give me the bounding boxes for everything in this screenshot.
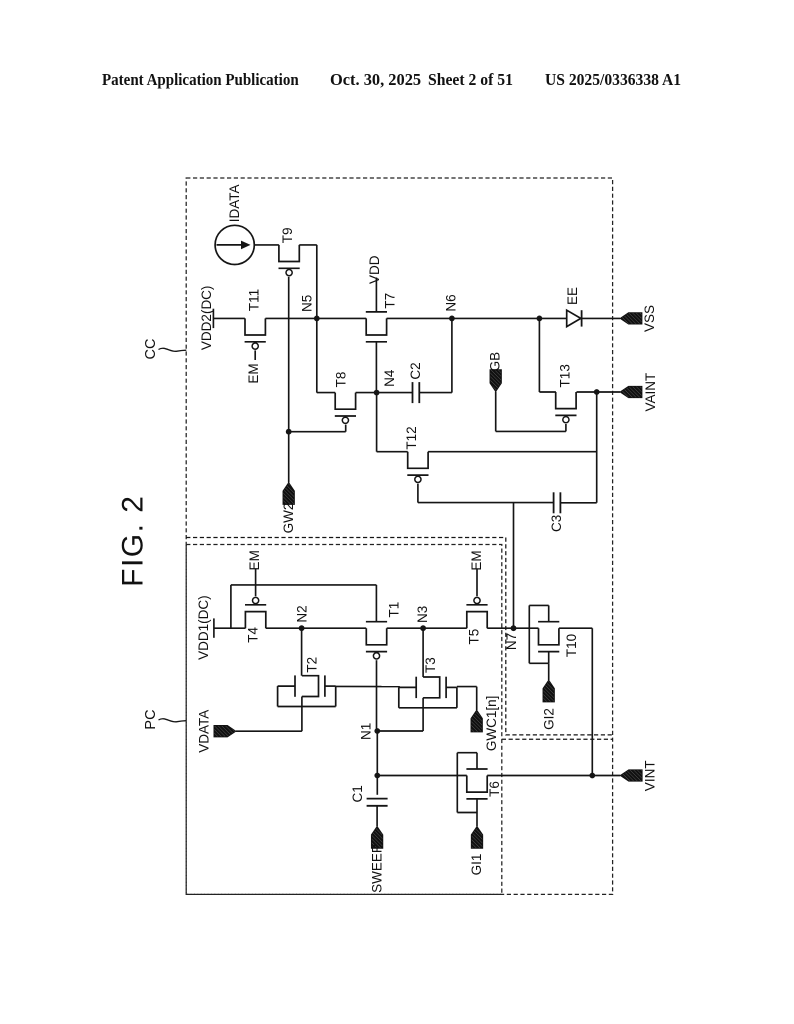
svg-text:GWC1[n]: GWC1[n] bbox=[484, 696, 499, 752]
wire T6 to VINT junction bbox=[487, 775, 592, 777]
CC leader line bbox=[159, 348, 187, 351]
wire T2 to VDATA wire bbox=[301, 697, 303, 732]
wire T3 down to N1 wire bbox=[422, 698, 424, 731]
wire N4 down to T12 row bbox=[376, 393, 378, 452]
terminal GWC1[n] bbox=[471, 710, 483, 732]
dashed segment below T10 pocket bbox=[502, 738, 613, 740]
svg-text:T3: T3 bbox=[423, 657, 438, 673]
terminal GW2 bbox=[283, 483, 295, 505]
terminal VINT bbox=[620, 770, 642, 782]
svg-text:T12: T12 bbox=[404, 426, 419, 449]
wire N3 to T5 bbox=[423, 627, 467, 629]
wire VAINT node down to C3 bbox=[596, 392, 598, 503]
svg-text:IDATA: IDATA bbox=[227, 184, 242, 222]
transistor T7 bbox=[366, 312, 387, 342]
wire T9 gate down to GW2 node bbox=[288, 277, 290, 432]
svg-text:N3: N3 bbox=[415, 606, 430, 623]
wire VDD2 to T11 bbox=[213, 317, 245, 319]
svg-text:GI2: GI2 bbox=[541, 708, 556, 730]
wire EE junction down to T13 bbox=[538, 318, 540, 392]
wire T12 to VAINT vertical bbox=[428, 451, 596, 453]
node N5 junction bbox=[314, 316, 320, 322]
wire GI1 to T6 gate loop bbox=[476, 813, 478, 827]
wire N1 to T3 bbox=[377, 730, 423, 732]
wire N1 row to T6 bbox=[377, 775, 467, 777]
page header text bbox=[102, 70, 299, 90]
transistor T8 bbox=[335, 393, 356, 424]
T10 gate loop wires bbox=[548, 605, 550, 621]
node N6 junction bbox=[449, 316, 455, 322]
wire N5 to T7 bbox=[317, 317, 366, 319]
svg-text:T11: T11 bbox=[247, 289, 262, 311]
svg-text:N4: N4 bbox=[382, 369, 397, 387]
svg-text:T6: T6 bbox=[487, 781, 502, 797]
wire to T8 bbox=[317, 392, 335, 394]
wire to VINT terminal bbox=[592, 775, 620, 777]
svg-text:C3: C3 bbox=[549, 515, 564, 532]
junction N1 row bbox=[374, 773, 380, 779]
wire N2 down to T2 bbox=[301, 628, 303, 676]
junction VAINT node bbox=[594, 389, 600, 395]
PC leader line bbox=[159, 719, 187, 722]
wire T5 gate up to EM bbox=[476, 569, 478, 596]
wire T1 gate down to N1 bbox=[376, 660, 378, 731]
CC block dashed border bbox=[186, 178, 612, 894]
wire N7 net down to N7 bbox=[513, 503, 515, 629]
transistor T4 bbox=[245, 597, 266, 628]
wire T7 bottom gate to N4 bbox=[375, 342, 377, 393]
transistor T5 bbox=[466, 597, 487, 628]
svg-text:N2: N2 bbox=[295, 605, 310, 622]
terminal GI1 bbox=[471, 826, 483, 848]
wire C2 to N6 branch bbox=[419, 392, 452, 394]
transistor T9 bbox=[279, 245, 300, 276]
node N2 junction bbox=[299, 625, 305, 631]
svg-text:SWEEP: SWEEP bbox=[369, 844, 384, 893]
capacitor C3 bbox=[554, 492, 561, 513]
wire T3 loop to GWC1 terminal bbox=[457, 686, 477, 688]
svg-text:T7: T7 bbox=[383, 293, 398, 309]
wire to C3 right plate bbox=[561, 502, 597, 504]
node N7 junction bbox=[511, 625, 517, 631]
terminal GB bbox=[490, 370, 502, 392]
wire T11 gate to EM bbox=[254, 350, 256, 360]
transistor T12 bbox=[407, 452, 428, 483]
svg-text:EM: EM bbox=[247, 550, 262, 570]
svg-text:T13: T13 bbox=[558, 364, 573, 387]
svg-text:N5: N5 bbox=[300, 295, 315, 312]
transistor T10 bbox=[538, 622, 559, 652]
wire N3 down to T3 bbox=[422, 628, 424, 677]
svg-text:VDD: VDD bbox=[367, 255, 382, 284]
svg-text:T10: T10 bbox=[564, 634, 579, 657]
wire VDD1 branch up bbox=[230, 585, 232, 628]
wire T10 down to VINT row bbox=[591, 628, 593, 775]
terminal VSS bbox=[620, 313, 642, 325]
terminal GI2 bbox=[543, 680, 555, 702]
wire N2 to T1 bbox=[302, 627, 367, 629]
wire T11 to N5 bbox=[265, 317, 316, 319]
wire GW2 node to GW2 terminal bbox=[288, 432, 290, 483]
transistor T3 bbox=[399, 677, 457, 708]
node N4 junction bbox=[374, 390, 380, 396]
wire IDATA to T9 bbox=[254, 244, 279, 246]
svg-text:C1: C1 bbox=[350, 785, 365, 802]
svg-text:VDATA: VDATA bbox=[197, 710, 212, 753]
wire VDD to T7 top gate bbox=[375, 278, 377, 312]
wire N4 to C2 bbox=[377, 392, 413, 394]
capacitor C1 bbox=[367, 799, 388, 806]
wire GWC1 net T2 loop to T3 loop bbox=[336, 685, 400, 687]
svg-text:VAINT: VAINT bbox=[643, 373, 658, 412]
terminal SWEEP bbox=[371, 826, 383, 848]
wire up to N6 bbox=[451, 318, 453, 392]
wire across to T1 top gate bbox=[231, 584, 377, 586]
wire T7 to N6 bbox=[387, 317, 452, 319]
terminal VAINT bbox=[620, 386, 642, 398]
wire N7 to T10 bbox=[514, 627, 539, 629]
wire T8 gate to GW2 node bbox=[289, 431, 346, 433]
svg-text:N1: N1 bbox=[359, 723, 374, 740]
capacitor C2 bbox=[413, 382, 420, 403]
wire VDD1 to T4 bbox=[214, 627, 246, 629]
svg-text:VINT: VINT bbox=[643, 760, 658, 791]
terminal tick VDD1(DC) bbox=[213, 618, 215, 637]
svg-text:PC: PC bbox=[143, 709, 159, 729]
svg-text:C2: C2 bbox=[408, 362, 423, 379]
wire down to T1 top gate bar bbox=[375, 585, 377, 622]
wire T4 gate up to EM bbox=[255, 569, 257, 596]
wire GB down bbox=[495, 392, 497, 432]
transistor T1 bbox=[366, 622, 387, 659]
wire N5 down to T8 row bbox=[316, 318, 318, 392]
svg-text:VDD2(DC): VDD2(DC) bbox=[199, 286, 214, 351]
wire VDATA bbox=[236, 730, 302, 732]
wire T10 to VINT branch bbox=[559, 627, 592, 629]
inner dashed boundary (upper CC region / T10 pocket) bbox=[186, 538, 612, 735]
node N3 junction bbox=[420, 625, 426, 631]
wire to T12 bbox=[377, 451, 408, 453]
T6 gate loop wires bbox=[476, 753, 478, 769]
svg-text:T9: T9 bbox=[280, 227, 295, 243]
PC block dashed border bbox=[186, 545, 502, 895]
svg-text:N7: N7 bbox=[504, 633, 519, 650]
wire down to N5 bbox=[316, 245, 318, 319]
wire N6 to EE junction bbox=[452, 317, 540, 319]
svg-text:EM: EM bbox=[246, 363, 261, 383]
wire down to C1 bbox=[376, 776, 378, 795]
junction VINT node bbox=[589, 773, 595, 779]
svg-text:EE: EE bbox=[565, 287, 580, 305]
svg-text:VDD1(DC): VDD1(DC) bbox=[196, 595, 211, 660]
svg-text:GW2: GW2 bbox=[281, 503, 296, 534]
junction at EE anode branch bbox=[537, 316, 543, 322]
wire T5 to N7 bbox=[487, 627, 513, 629]
wire junction to diode EE bbox=[539, 317, 566, 319]
wire N1 down bbox=[376, 731, 378, 776]
svg-text:EM: EM bbox=[469, 550, 484, 570]
wire GB to T13 gate bbox=[496, 430, 566, 432]
diode EE (OLED) bbox=[567, 310, 582, 326]
wire down to GWC1 terminal bbox=[476, 687, 478, 710]
transistor T13 bbox=[555, 392, 576, 423]
wire to VAINT terminal bbox=[597, 391, 620, 393]
svg-text:CC: CC bbox=[143, 339, 159, 360]
svg-text:T8: T8 bbox=[334, 372, 349, 388]
wire diode to VSS terminal bbox=[582, 317, 620, 319]
svg-text:T2: T2 bbox=[304, 657, 319, 673]
wire C1 to SWEEP bbox=[376, 806, 378, 826]
svg-text:FIG. 2: FIG. 2 bbox=[117, 495, 150, 587]
junction GW2 node bbox=[286, 429, 292, 435]
transistor T6 bbox=[466, 769, 487, 799]
wire T12 gate to C3 left plate / N7 net bbox=[418, 502, 554, 504]
wire T13 gate stub bbox=[565, 424, 567, 431]
transistor T2 bbox=[278, 675, 336, 706]
transistor T11 bbox=[245, 318, 266, 349]
current source IDATA bbox=[215, 225, 254, 264]
wire T8 gate down bbox=[345, 425, 347, 432]
wire T8 to N4 bbox=[356, 392, 377, 394]
wire T9 to N5 branch bbox=[299, 244, 317, 246]
svg-text:T1: T1 bbox=[387, 602, 402, 618]
svg-text:VSS: VSS bbox=[642, 305, 657, 332]
node N1 junction bbox=[374, 728, 380, 734]
svg-text:T4: T4 bbox=[246, 627, 261, 643]
wire T12 gate down bbox=[417, 484, 419, 503]
wire GI2 to T10 gate loop bbox=[548, 663, 550, 680]
terminal tick VDD2(DC) bbox=[212, 309, 214, 328]
svg-text:GB: GB bbox=[488, 352, 503, 372]
wire T13 to VAINT junction bbox=[577, 391, 597, 393]
svg-text:GI1: GI1 bbox=[469, 854, 484, 876]
wire T1 to N3 bbox=[387, 627, 423, 629]
wire T4 to N2 bbox=[266, 627, 302, 629]
svg-text:N6: N6 bbox=[443, 294, 458, 311]
terminal VDATA bbox=[214, 725, 236, 737]
svg-text:T5: T5 bbox=[466, 629, 481, 645]
